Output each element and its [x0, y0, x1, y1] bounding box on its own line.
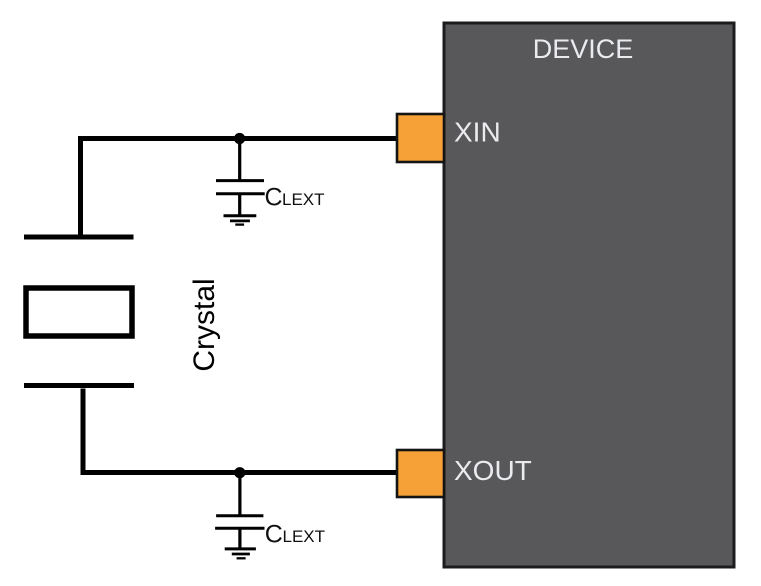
wire (bottom net: crystal bottom to XOUT): [83, 389, 397, 473]
ground (top CLEXT): [224, 216, 257, 225]
junction (bottom wire / CLEXT tap): [234, 467, 245, 478]
svg-text:Crystal: Crystal: [188, 278, 221, 371]
capacitor value label C_LEXT (bottom): [265, 521, 325, 549]
pin label XIN: [454, 117, 501, 148]
svg-text:XOUT: XOUT: [454, 455, 532, 486]
capacitor C_LEXT (bottom): [215, 473, 264, 549]
pin label XOUT: [454, 455, 532, 486]
wire (top net: crystal top to XIN): [81, 139, 400, 237]
ground (bottom CLEXT): [225, 549, 256, 558]
svg-text:C: C: [265, 184, 283, 212]
pin XIN (orange pad): [397, 114, 444, 162]
capacitor value label C_LEXT (top): [265, 184, 325, 212]
svg-text:LEXT: LEXT: [283, 527, 326, 546]
capacitor C_LEXT (top): [216, 139, 265, 216]
crystal (body): [26, 288, 132, 336]
svg-text:DEVICE: DEVICE: [533, 34, 634, 64]
device U1 (DEVICE block): [444, 23, 734, 567]
crystal (top plate): [24, 235, 134, 240]
svg-text:LEXT: LEXT: [282, 190, 325, 209]
crystal label Crystal: [188, 278, 221, 371]
device label DEVICE: [533, 34, 634, 64]
crystal (bottom plate): [24, 383, 134, 388]
pin XOUT (orange pad): [397, 450, 444, 497]
junction (top wire / CLEXT tap): [234, 133, 245, 144]
svg-text:C: C: [265, 521, 283, 549]
svg-text:XIN: XIN: [454, 117, 501, 148]
